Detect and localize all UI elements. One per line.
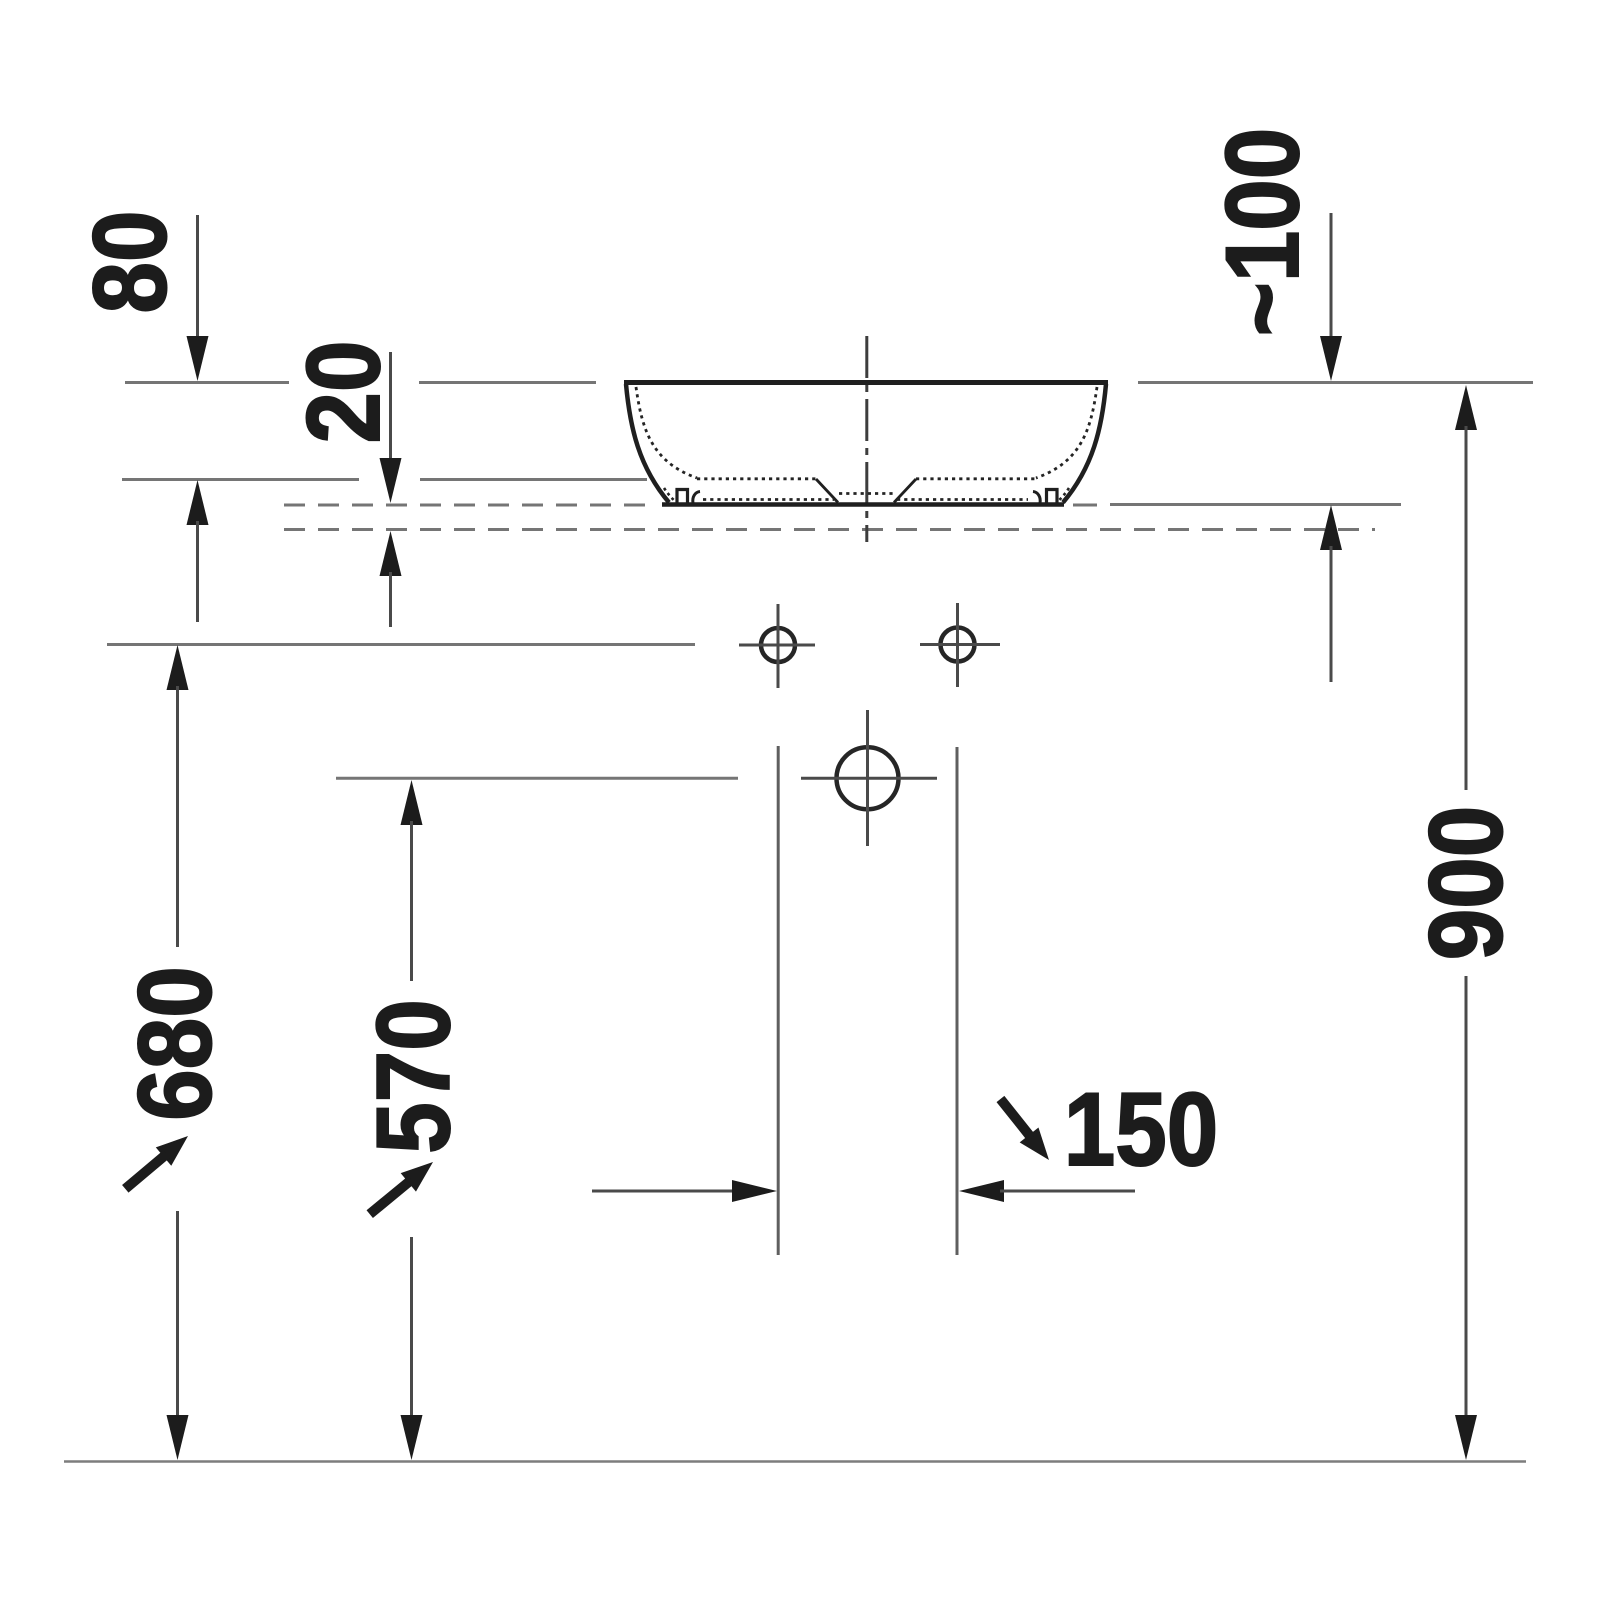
svg-text:~100: ~100 — [1204, 128, 1320, 336]
basin outline: bottom line — [662, 502, 1064, 507]
wire: counter line right solid segment — [1110, 503, 1401, 506]
dimension 150: diagonal adjustability arrow — [991, 1091, 1058, 1167]
basin hidden foot ring: right dotted line — [897, 498, 1028, 501]
dimension 150: left line with right arrowhead — [592, 1190, 740, 1193]
wire: rim level construction line left segment 1 — [125, 381, 289, 384]
wire: floor line — [64, 1460, 1526, 1463]
svg-text:80: 80 — [71, 211, 187, 314]
basin drain recess: left solid slant — [816, 479, 838, 503]
basin right foot — [1047, 490, 1058, 504]
wire: extension line below left fixing hole — [777, 746, 780, 1255]
dimension ~100: upper stem and down arrowhead — [1330, 213, 1333, 340]
wire: fixing holes reference line — [107, 643, 695, 646]
svg-text:20: 20 — [285, 341, 401, 444]
wire: faucet level reference line — [336, 777, 738, 780]
wire: extension line below right fixing hole — [956, 747, 959, 1255]
basin inner dotted arc right of right foot — [1058, 488, 1069, 501]
wire: upper dashed counter line short dash right of basin — [1073, 504, 1097, 507]
dimension 680: lower stem with down arrowhead — [176, 1211, 179, 1420]
dimension 570: lower stem with down arrowhead — [410, 1237, 413, 1420]
faucet hole: circle — [837, 747, 899, 809]
basin outline: rim top line — [624, 380, 1108, 385]
dimension 900: upper stem with up arrowhead — [1455, 385, 1477, 430]
svg-text:680: 680 — [116, 966, 232, 1120]
svg-text:150: 150 — [1064, 1071, 1218, 1187]
svg-text:570: 570 — [355, 999, 471, 1153]
basin inner profile: left dotted bottom — [697, 477, 816, 480]
dimension 900: lower stem with down arrowhead — [1465, 976, 1468, 1420]
fixing hole right: circle — [941, 628, 975, 662]
basin inner profile: right dotted bottom — [916, 477, 1036, 480]
wire: rim level construction line right segment — [1138, 381, 1533, 384]
faucet hole: crosshair — [866, 710, 869, 846]
wire: counter top line left segment 1 — [122, 478, 359, 481]
wire: upper dashed counter line left part — [284, 504, 658, 507]
dimension 20: upper stem and down arrowhead — [389, 352, 392, 462]
dimension 80: lower stem and up arrowhead — [187, 480, 209, 525]
basin drain recess: right solid slant — [894, 479, 916, 503]
basin outline: right outer wall — [1063, 384, 1106, 503]
basin hidden foot ring: left dotted line — [703, 498, 834, 501]
svg-text:900: 900 — [1407, 806, 1523, 960]
basin left inner bottom curve — [693, 492, 700, 504]
dimension 680: upper stem with up arrowhead — [167, 645, 189, 690]
basin drain recess: dotted middle line — [839, 492, 893, 495]
wire: lower dashed counter line — [284, 528, 1375, 531]
fixing hole right: crosshair — [956, 603, 959, 687]
basin right inner bottom curve — [1033, 492, 1040, 504]
dimension 570: diagonal adjustability arrow — [362, 1153, 441, 1224]
dimension ~100: lower stem and up arrowhead — [1320, 505, 1342, 550]
basin left foot — [677, 490, 688, 504]
fixing hole left: circle — [761, 628, 795, 662]
node: basin center line — [865, 336, 868, 542]
wire: rim level construction line left segment 2 — [419, 381, 596, 384]
fixing hole left: crosshair — [777, 604, 780, 688]
basin inner profile: right dotted wall curve — [1036, 387, 1097, 478]
dimension 80: upper stem and down arrowhead — [196, 215, 199, 340]
basin outline: left outer wall — [626, 384, 669, 503]
dimension 570: upper stem with up arrowhead — [401, 780, 423, 825]
dimension 20: lower stem and up arrowhead — [380, 531, 402, 576]
wire: counter top line left segment 2 — [420, 478, 647, 481]
dimension 680: diagonal adjustability arrow — [118, 1127, 196, 1198]
basin inner dotted arc left of left foot — [664, 488, 675, 501]
dimension 150: right line with left arrowhead — [959, 1180, 1004, 1202]
basin inner profile: left dotted wall curve — [636, 387, 697, 478]
